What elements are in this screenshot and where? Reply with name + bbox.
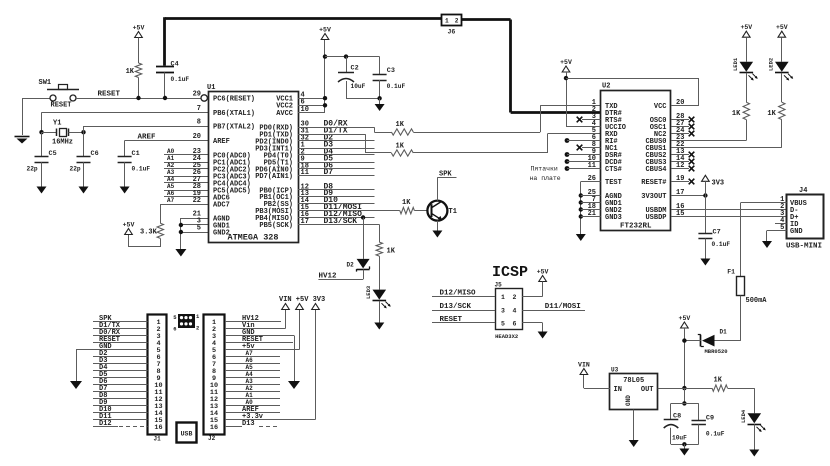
svg-text:ICSP: ICSP [492, 264, 528, 281]
svg-text:GND3: GND3 [605, 214, 622, 222]
svg-text:500mA: 500mA [746, 297, 768, 305]
svg-text:1K: 1K [396, 121, 405, 129]
svg-text:U3: U3 [611, 366, 619, 373]
svg-text:F1: F1 [727, 269, 735, 276]
svg-text:LED2: LED2 [767, 58, 774, 71]
svg-text:+5V: +5V [123, 222, 135, 229]
svg-text:D1: D1 [720, 329, 728, 336]
svg-text:+5V: +5V [319, 27, 331, 34]
svg-text:J1: J1 [154, 436, 162, 443]
svg-text:на плате: на плате [530, 175, 561, 182]
svg-text:Y1: Y1 [53, 120, 61, 128]
svg-text:HEAD3X2: HEAD3X2 [495, 333, 518, 340]
svg-text:3V3: 3V3 [712, 179, 725, 187]
svg-text:C6: C6 [91, 150, 99, 158]
svg-text:22p: 22p [27, 166, 38, 173]
svg-text:A1: A1 [167, 155, 175, 162]
svg-text:AREF: AREF [213, 138, 230, 146]
svg-text:J4: J4 [799, 187, 807, 195]
svg-text:AVCC: AVCC [276, 110, 293, 118]
svg-text:J5: J5 [495, 282, 503, 289]
svg-text:1K: 1K [732, 110, 741, 118]
svg-text:0.1uF: 0.1uF [171, 76, 190, 83]
svg-text:A2: A2 [246, 385, 254, 392]
svg-text:0.1uF: 0.1uF [132, 166, 151, 173]
svg-text:CTS#: CTS# [605, 166, 622, 174]
svg-text:A0: A0 [246, 399, 254, 406]
svg-text:1K: 1K [126, 68, 135, 76]
svg-text:LED3: LED3 [365, 285, 372, 299]
svg-text:C5: C5 [49, 150, 57, 158]
svg-text:3.3K: 3.3K [140, 229, 158, 237]
svg-text:LED4: LED4 [740, 409, 747, 423]
svg-text:5: 5 [501, 320, 505, 327]
svg-text:PB5(SCK): PB5(SCK) [259, 222, 293, 230]
svg-text:1K: 1K [402, 199, 411, 207]
svg-text:D12/MISO: D12/MISO [440, 289, 477, 297]
svg-text:2: 2 [455, 17, 459, 24]
svg-text:1K: 1K [714, 376, 723, 384]
svg-text:CBUS4: CBUS4 [645, 166, 666, 174]
svg-text:USBDP: USBDP [645, 214, 666, 222]
svg-text:C7: C7 [713, 229, 721, 237]
svg-text:16: 16 [154, 424, 162, 432]
svg-text:0.1uF: 0.1uF [706, 431, 725, 438]
svg-text:VIN +5V 3V3: VIN +5V 3V3 [279, 296, 325, 304]
svg-text:+5V: +5V [740, 24, 752, 31]
svg-text:C4: C4 [171, 61, 179, 69]
svg-text:A4: A4 [246, 371, 254, 378]
svg-text:A7: A7 [167, 197, 175, 204]
svg-text:PB6(XTAL1): PB6(XTAL1) [213, 110, 255, 118]
svg-text:LED1: LED1 [732, 57, 739, 71]
svg-text:10uF: 10uF [351, 83, 366, 90]
svg-text:D2: D2 [347, 262, 355, 269]
svg-text:C1: C1 [132, 150, 140, 158]
svg-text:ATMEGA 328: ATMEGA 328 [227, 233, 278, 243]
svg-text:USB: USB [181, 431, 193, 438]
svg-text:RESET#: RESET# [641, 179, 666, 187]
svg-text:USB-MINI: USB-MINI [786, 243, 822, 251]
svg-text:RESET: RESET [98, 91, 121, 99]
svg-text:PC6(RESET): PC6(RESET) [213, 96, 255, 104]
svg-text:A3: A3 [167, 169, 175, 176]
svg-text:A7: A7 [246, 350, 254, 357]
svg-text:Пятачки: Пятачки [531, 166, 558, 173]
svg-text:PB7(XTAL2): PB7(XTAL2) [213, 123, 255, 131]
svg-text:0.1uF: 0.1uF [712, 241, 731, 248]
svg-text:A5: A5 [246, 364, 254, 371]
svg-text:MBR0520: MBR0520 [705, 348, 728, 355]
svg-text:ADC7: ADC7 [213, 201, 230, 209]
svg-text:C3: C3 [387, 67, 395, 75]
svg-text:RESET: RESET [51, 102, 72, 110]
svg-text:J2: J2 [208, 435, 216, 442]
svg-text:6: 6 [173, 326, 176, 333]
svg-text:A3: A3 [246, 378, 254, 385]
svg-text:GND: GND [790, 228, 803, 236]
svg-text:VIN: VIN [578, 362, 590, 369]
svg-text:6: 6 [513, 320, 517, 327]
svg-text:IN: IN [614, 386, 622, 394]
svg-text:D12: D12 [99, 420, 112, 428]
svg-text:D13/SCK: D13/SCK [440, 303, 472, 311]
svg-text:7: 7 [197, 105, 201, 113]
svg-text:VCC: VCC [654, 103, 667, 111]
svg-text:29: 29 [193, 90, 201, 98]
svg-text:20: 20 [193, 133, 201, 141]
svg-text:U2: U2 [602, 83, 610, 91]
svg-text:1K: 1K [767, 110, 776, 118]
svg-text:SPK: SPK [439, 170, 452, 178]
svg-text:SW1: SW1 [39, 79, 52, 87]
svg-text:A6: A6 [167, 190, 175, 197]
svg-text:2: 2 [513, 294, 517, 301]
svg-text:PD7(AIN1): PD7(AIN1) [255, 173, 293, 181]
svg-text:+5V: +5V [537, 269, 549, 276]
svg-text:+5V: +5V [560, 59, 572, 66]
svg-text:A2: A2 [167, 162, 175, 169]
svg-text:GND2: GND2 [213, 229, 230, 237]
svg-text:A0: A0 [167, 148, 175, 155]
svg-text:RESET: RESET [440, 316, 463, 324]
svg-text:8: 8 [197, 119, 201, 127]
svg-text:U1: U1 [207, 84, 215, 92]
svg-text:A5: A5 [167, 183, 175, 190]
svg-text:C2: C2 [351, 65, 359, 73]
svg-text:78L05: 78L05 [623, 377, 644, 385]
svg-text:+5V: +5V [679, 315, 691, 322]
svg-text:D11/MOSI: D11/MOSI [545, 303, 581, 311]
svg-text:+5V: +5V [776, 24, 788, 31]
svg-text:AREF: AREF [138, 134, 157, 142]
svg-text:C8: C8 [673, 412, 681, 420]
svg-text:0.1uF: 0.1uF [387, 83, 406, 90]
svg-text:D13: D13 [242, 420, 255, 428]
svg-text:GND: GND [625, 395, 632, 406]
svg-text:OUT: OUT [641, 386, 654, 394]
svg-text:22: 22 [193, 197, 201, 205]
svg-text:J6: J6 [448, 29, 456, 36]
svg-text:1: 1 [501, 294, 505, 301]
svg-text:HV12: HV12 [319, 273, 338, 281]
svg-text:C9: C9 [706, 414, 714, 422]
svg-text:FT232RL: FT232RL [620, 222, 652, 230]
svg-text:10: 10 [301, 106, 309, 114]
svg-text:1K: 1K [387, 247, 396, 255]
svg-text:A4: A4 [167, 176, 175, 183]
svg-text:2: 2 [196, 325, 199, 332]
svg-text:1K: 1K [396, 143, 405, 151]
svg-text:5: 5 [197, 225, 201, 233]
svg-text:16: 16 [210, 424, 218, 432]
svg-text:10uF: 10uF [672, 435, 687, 442]
svg-text:3: 3 [501, 307, 505, 314]
svg-text:T1: T1 [449, 208, 457, 216]
svg-text:+5V: +5V [133, 25, 145, 32]
svg-text:TEST: TEST [605, 179, 622, 187]
svg-text:22p: 22p [70, 166, 81, 173]
svg-text:1: 1 [445, 17, 449, 24]
svg-text:3V3OUT: 3V3OUT [641, 193, 666, 201]
svg-text:4: 4 [513, 307, 517, 314]
svg-text:A1: A1 [246, 392, 254, 399]
svg-text:16MHz: 16MHz [52, 139, 73, 147]
svg-text:A6: A6 [246, 357, 254, 364]
